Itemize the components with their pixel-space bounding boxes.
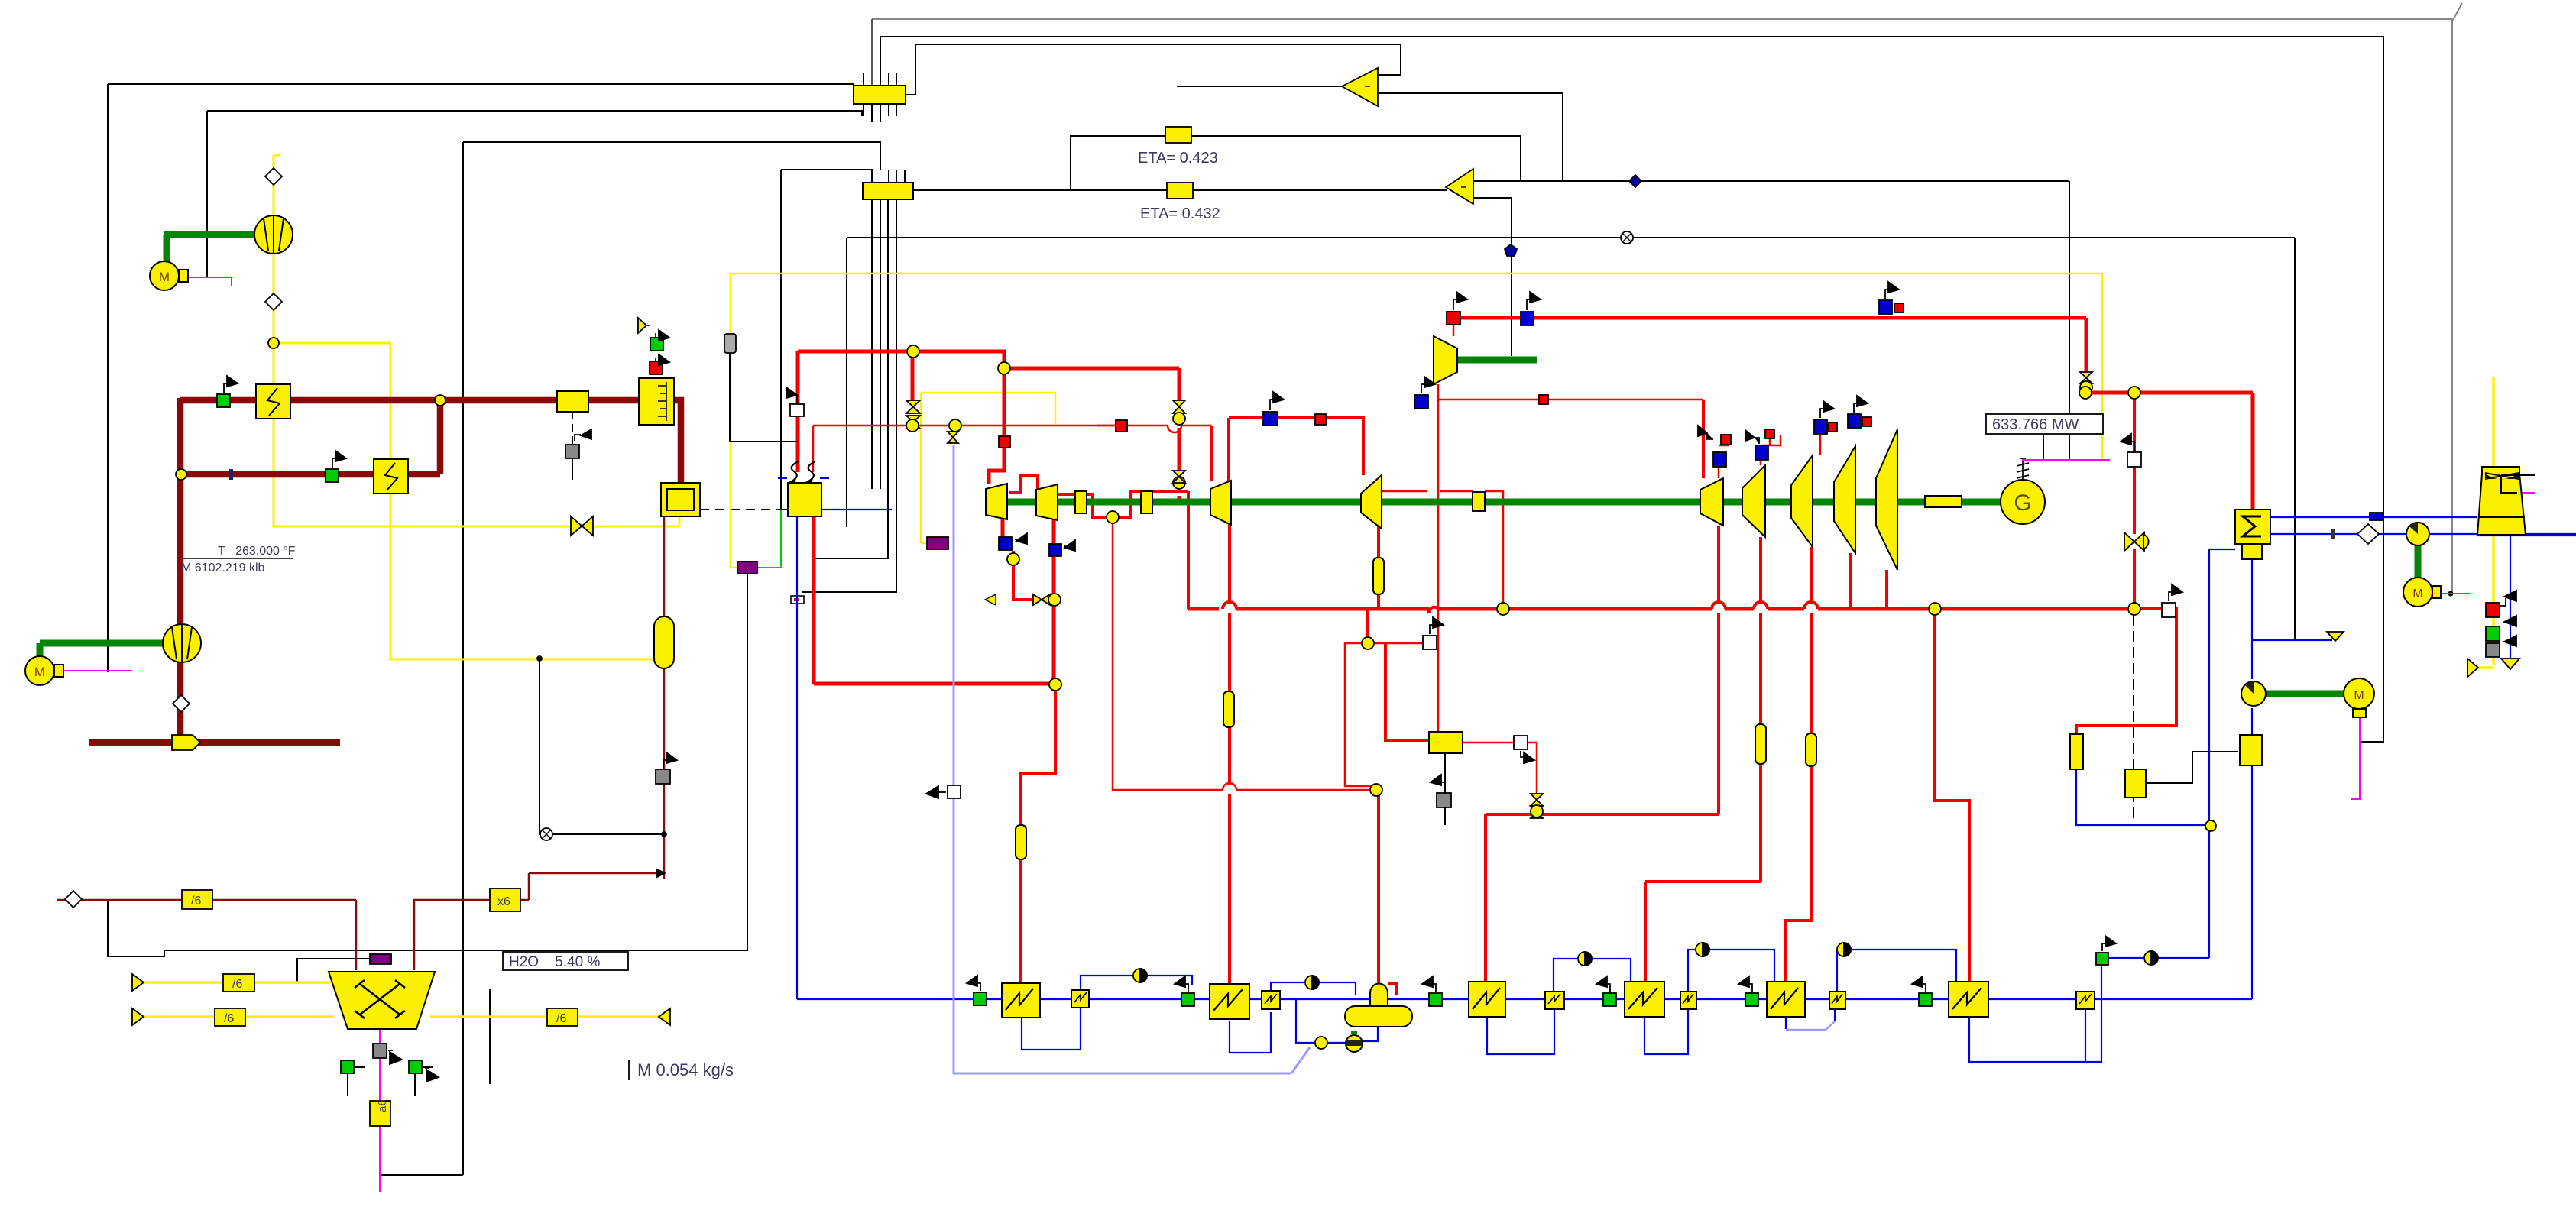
pipe T1 exhaust: [1001, 517, 1005, 545]
pipe FWH6 vent: [1837, 950, 1956, 992]
meter drum stack: [650, 338, 663, 351]
pipe makeup water: [954, 445, 1291, 1073]
valve spray hourglass: [1531, 794, 1543, 806]
node white diamond air1: [265, 168, 282, 185]
wire x1022 down to boiler: [781, 170, 788, 510]
pipe BFPT inlet y416: [1453, 324, 1455, 336]
damper small box: [557, 391, 588, 412]
node air junction dot: [537, 656, 542, 661]
BFP pump: [1346, 1035, 1363, 1052]
node white diamond fuel: [65, 891, 82, 908]
meter FWH2 green + flag: [1181, 993, 1194, 1006]
FWH2 heater: [1210, 984, 1249, 1019]
svg-text:M: M: [34, 665, 45, 679]
wire box2 small pins: [888, 170, 889, 183]
wire condenser control black: [2146, 752, 2238, 783]
pipe FWH7 drain loop: [1969, 965, 2101, 1062]
valve cold reheat bowtie: [1033, 594, 1050, 605]
wire frame2 left x606: [462, 142, 464, 1175]
pipe T5 top cluster: [1718, 451, 1720, 478]
pipe gland steam line: [2076, 609, 2176, 734]
purple actuator mill: [370, 954, 391, 964]
pipe FWH5 extraction y1154: [1645, 880, 1761, 883]
wire cooling tower yellow riser: [2492, 377, 2495, 665]
svg-text:x6: x6: [497, 895, 510, 908]
pipe drain cooler 6 bottom: [2085, 1008, 2086, 1062]
wire mill air line2 left: [142, 1015, 334, 1018]
pipe economizer condensate x1043: [796, 516, 798, 999]
svg-text:M: M: [2412, 587, 2422, 600]
condensate tank box: [2240, 735, 2262, 765]
meter red crossover: [1315, 414, 1326, 425]
meter half-moon FWH2: [1305, 976, 1319, 989]
FWH6 drain cooler: [1829, 992, 1845, 1009]
wire triangle1 output line: [1177, 86, 1343, 87]
meter cluster T5: [1713, 452, 1726, 467]
gland steam condenser tall rect: [2070, 734, 2083, 769]
pipe left downcomer x236: [177, 398, 184, 743]
pipe x6 recirc thin: [529, 872, 659, 875]
node condenser drain: [2205, 820, 2216, 831]
boiler lightning marks: [792, 461, 799, 481]
pipe drum to furnace: [674, 400, 681, 484]
FWH2 drain cooler: [1262, 991, 1280, 1009]
converter triangle U1: [1342, 68, 1378, 106]
pipe vessel down thin: [663, 668, 666, 879]
node header left: [1497, 603, 1509, 615]
pipe main steam y460: [798, 350, 1006, 354]
meter blue crossover + flag: [1263, 412, 1278, 426]
wire yellow long signal y358: [731, 273, 2102, 275]
wire vessel junction: [540, 659, 664, 834]
wire label leader T/M: [178, 558, 293, 559]
wire air HX1 to flue valve line: [274, 419, 679, 526]
node BFP suction: [1315, 1037, 1327, 1049]
meter blue BFPT line + flag: [1521, 312, 1534, 325]
meter tower left triangle: [2467, 659, 2478, 677]
meter red on T2 drop: [999, 436, 1010, 448]
attemperator box: [1429, 732, 1463, 753]
FWH6 heater: [1767, 982, 1805, 1017]
wire condenser level dashed: [2133, 551, 2134, 825]
node CW tick: [2331, 529, 2335, 539]
pipe T2 drop to node: [1052, 519, 1056, 684]
node fuel pentagon tag: [172, 735, 200, 750]
turbine T1 HP: [986, 484, 1007, 519]
wire motor M1: [186, 277, 232, 286]
pipe cold reheat return y895: [814, 682, 1055, 686]
node IP extraction: [1107, 511, 1119, 523]
pipe FWH6 drain kink lavender: [1786, 1021, 1835, 1030]
coupling C3: [1473, 492, 1485, 511]
FWH7 drain cooler: [2076, 992, 2095, 1009]
pipe FWH2 drain loop: [1230, 1012, 1271, 1053]
coupling generator shaft piece: [1925, 496, 1962, 507]
FWH4 heater: [1469, 982, 1505, 1017]
wire air branch node 449: [274, 343, 654, 659]
pipe T4 drop x1804: [1377, 526, 1380, 609]
pipe throttle valve feed x1194: [911, 351, 915, 402]
pipe deaerator steam x1804: [1376, 790, 1379, 985]
meter cluster T9: [1879, 300, 1892, 314]
heat exchanger HX2: [374, 459, 408, 494]
meter red BFPT + flag: [1447, 312, 1460, 325]
tag box /6 air1: [223, 974, 254, 992]
node bypass top: [2079, 387, 2092, 399]
node white diamond CW: [2357, 524, 2379, 544]
pipe hot gas top y524: [180, 397, 639, 404]
meter half-moon drain: [2144, 951, 2158, 965]
meter gray attemp + flag: [1437, 793, 1451, 807]
wire ETA row1 branch: [1071, 136, 1521, 190]
pipe fuel line y1178 left: [57, 899, 356, 901]
meter blue BFPT mid: [1414, 395, 1428, 409]
node bypass right: [2128, 387, 2140, 399]
turbine T8 LP: [1834, 446, 1855, 553]
pipe FWH1 vent: [1081, 976, 1192, 990]
wire CW pump motor: [2432, 593, 2470, 594]
node header end: [2128, 603, 2140, 615]
node blue pentagon BFPT: [1505, 244, 1517, 256]
pipe IP valve drop x1543: [1178, 368, 1181, 400]
node main steam B: [998, 362, 1010, 374]
node white diamond gas: [173, 695, 190, 712]
valve condenser dump: [2124, 532, 2144, 551]
wire triangle2 output y237: [1473, 180, 2069, 182]
turbine T9 LP: [1876, 429, 1897, 570]
pipe heater6 extraction x2532: [1935, 609, 1969, 985]
pipe boiler SH feed x1044: [796, 351, 800, 472]
fan FD1: [254, 215, 293, 254]
wire y145 into box1 bottom pin: [207, 111, 862, 116]
heat exchanger HX1: [256, 384, 290, 419]
meter white sq bypass + flag: [2127, 452, 2141, 467]
meter tower green: [2486, 626, 2500, 641]
efficiency box ETA2: [1167, 183, 1193, 199]
LAYER: small squares and instruments: [132, 282, 2519, 1082]
svg-text:T 263.000 °F: T 263.000 °F: [218, 545, 296, 558]
shaft CW pump motor: [2415, 544, 2422, 578]
meter blue T2: [1049, 544, 1061, 556]
LAYER: lavender makeup line: [954, 445, 1835, 1073]
node gas y621: [176, 469, 186, 480]
pipe node1790 risers: [1366, 609, 1369, 643]
element on T3 drop: [1223, 691, 1234, 727]
turbine T7 LP: [1791, 455, 1813, 547]
wire connector box1 right riser: [906, 44, 915, 95]
wire x1108 riser: [846, 238, 847, 527]
meter cluster T7: [1814, 419, 1827, 434]
wire triangle1 lower branch: [1378, 93, 1563, 181]
pipe deaerator outlet: [1363, 1026, 1378, 1041]
pipe deaerator vent hook: [1388, 983, 1397, 995]
desuper element on T4 drop: [1373, 558, 1384, 594]
pipe turbine small loop T1-T2: [1009, 475, 1038, 493]
meter deaerator green + flag: [1429, 993, 1442, 1006]
wire gray block drop overlay: [730, 353, 798, 442]
node reheat C: [949, 419, 961, 432]
meter half-moon FWH6: [1837, 943, 1851, 956]
node header right: [1929, 603, 1941, 615]
pipe T4 crossover thin y643: [1382, 490, 1427, 493]
node white diamond air2: [265, 293, 282, 310]
FWH1 drain cooler: [1071, 990, 1089, 1008]
pipe bypass valve drop x2793: [2133, 393, 2136, 534]
svg-text:/6: /6: [556, 1012, 566, 1025]
wire magenta mill bottom link: [379, 1175, 381, 1192]
vessel cyclone: [654, 616, 674, 668]
connector box U3: [863, 183, 913, 199]
wire ETA row2 line: [914, 189, 1447, 191]
wire boiler gray block drop: [730, 353, 798, 442]
wire cooling tower yellow bottom L: [2478, 666, 2493, 669]
meter white sq header1 + flag: [1423, 636, 1437, 649]
flash box small: [2125, 769, 2146, 798]
meter blue T1: [999, 537, 1012, 550]
pipe second pass y621: [181, 471, 440, 478]
pipe bottom fuel y972: [89, 739, 340, 746]
pipe FWH4 extraction y1066: [1486, 813, 1719, 816]
svg-text:G: G: [2014, 490, 2031, 516]
coupling C2: [1141, 491, 1152, 513]
svg-text:M 0.054 kg/s: M 0.054 kg/s: [637, 1060, 734, 1079]
pipe CW line 1: [2270, 516, 2477, 518]
label box 633.766 MW: [1986, 414, 2103, 434]
meter white lavender + flag: [948, 785, 961, 798]
wire gray corner glyph: [2452, 3, 2462, 21]
condenser: [2235, 510, 2270, 544]
pipe FWH6 drain loop: [1785, 1018, 1787, 1029]
LAYER: valves: [571, 353, 2149, 818]
turbine T5 LP: [1700, 478, 1723, 526]
wire generator output: [2022, 459, 2110, 461]
shaft condensate pump motor: [2264, 691, 2344, 697]
deaerator dome: [1370, 983, 1388, 1006]
LAYER: yellow air/gas lines: [142, 155, 2493, 1017]
node valve outlet ball: [906, 419, 919, 432]
node air branch: [268, 338, 279, 348]
condenser hotwell: [2242, 544, 2262, 559]
pipe condenser left drain: [2209, 549, 2235, 958]
wire signal y58 to triangle U1: [915, 44, 1401, 75]
pipe T6 drop x2304: [1759, 537, 1762, 604]
node cold reheat: [1049, 678, 1061, 691]
pipe main steam y482: [1004, 351, 1179, 368]
pipe reheater top x1064: [812, 426, 815, 472]
meter cluster T6: [1755, 445, 1768, 460]
pipe drain to FWH7: [2108, 957, 2209, 959]
node circle marker y311: [1621, 231, 1633, 244]
svg-text:M: M: [2354, 689, 2364, 702]
tag box /6 air3: [547, 1008, 578, 1026]
node vessel dot: [662, 832, 666, 837]
meter mill green R: [409, 1060, 422, 1073]
shaft fan1: [164, 231, 255, 238]
meter white sq header2 + flag: [2162, 603, 2176, 617]
element on T8 drop: [1806, 733, 1816, 766]
svg-text:M: M: [159, 270, 170, 284]
meter FWH6 green + flag: [1745, 993, 1758, 1006]
pipe T8 drop x2370: [1810, 547, 1813, 604]
LAYER: maroon pipes: [57, 398, 681, 970]
wire mill air line2 right: [430, 1015, 659, 1018]
pipe condenser hotwell down: [2251, 559, 2253, 679]
LAYER: magenta electric lines: [61, 277, 2535, 1192]
meter gray signal block: [724, 334, 736, 353]
wire yellow thin control x1205: [921, 542, 927, 545]
valve main steam stack upper: [906, 400, 920, 413]
pipe gland condenser drain: [2076, 769, 2209, 825]
valve makeup hourglass: [948, 432, 958, 443]
node gas y524: [435, 395, 446, 406]
pipe T9 drop: [1849, 553, 1852, 609]
wire mill bottom green drops: [347, 1073, 348, 1096]
node gas tick y621: [229, 469, 233, 480]
pipe T10 drop: [1885, 570, 1888, 609]
tag box a6 mill: [370, 1101, 390, 1126]
coupling C1: [1075, 491, 1087, 513]
generator G: [2001, 480, 2045, 524]
pipe economizer outlet stub: [821, 509, 892, 510]
FWH4 drain cooler: [1545, 992, 1564, 1009]
pipe T2 exhaust crossover: [1058, 494, 1108, 517]
meter green gas1 + flag: [217, 394, 230, 407]
CW pump: [2406, 523, 2429, 545]
condensate pump: [2241, 681, 2266, 706]
pipe riser x576: [437, 398, 444, 474]
valve main steam stack lower: [906, 416, 920, 429]
pipe FWH4 vent: [1554, 959, 1631, 992]
tag box x6: [490, 888, 520, 911]
pipe hotwell vent y838: [2252, 639, 2332, 641]
pipe T6 top cluster: [1760, 460, 1762, 465]
pipe FWH4 drain loop: [1487, 1008, 1554, 1054]
pipe x6 box right stub: [518, 899, 529, 901]
turbine T3 IP1: [1210, 481, 1231, 525]
node CW blue marker: [2370, 513, 2383, 520]
shaft BFPT stub: [1435, 357, 1537, 364]
meter half-moon FWH1: [1133, 969, 1147, 982]
purple actuator turbine: [927, 537, 948, 549]
wire yellow x956 to purple: [731, 273, 737, 568]
LAYER: signal converters and labels: [181, 68, 2103, 1126]
wire cooling tower tag: [2517, 492, 2535, 494]
wire mill air line1: [142, 981, 331, 984]
node main steam A: [907, 345, 919, 358]
svg-text:ETA= 0.423: ETA= 0.423: [1138, 150, 1218, 167]
pipe CW line 2: [2270, 533, 2407, 535]
wire condensate pump motor: [2351, 717, 2360, 799]
meter cluster T8: [1848, 414, 1861, 428]
cooling tower: [2477, 467, 2526, 535]
pipe T3 inlet drop: [1210, 426, 1213, 481]
svg-text:/6: /6: [191, 895, 201, 908]
pipe condenser feed y514: [2085, 391, 2253, 395]
motor M2: [25, 656, 54, 685]
node T1 exhaust: [1007, 553, 1019, 565]
tower black tag lines: [2501, 475, 2535, 493]
wire signal y311 long: [847, 237, 2295, 238]
svg-text:H2O 5.40 %: H2O 5.40 %: [509, 954, 600, 970]
boiler reheater box: [788, 483, 821, 516]
turbine BFPT: [1434, 336, 1457, 384]
wire triangle2 lower output to BFPT: [1473, 198, 1512, 356]
pipe FWH2 vent: [1271, 982, 1356, 995]
wire boiler box dashes: [700, 509, 788, 510]
efficiency box ETA1: [1165, 127, 1191, 143]
wire mill purple box link: [297, 959, 370, 982]
furnace outlet box: [661, 483, 700, 516]
label box H2O: [503, 952, 628, 970]
node deaerator branch lower: [1370, 784, 1382, 796]
meter mill green L: [341, 1060, 354, 1073]
meter half-moon FWH4: [1578, 952, 1592, 966]
converter triangle U2: [1446, 169, 1473, 204]
pipe T7 top cluster: [1819, 434, 1822, 455]
element on T6 drop: [1755, 724, 1766, 764]
pipe BFPT exhaust thin y523: [1438, 399, 1703, 401]
meter white sq attemp + flag: [1514, 736, 1528, 749]
valve yellow line bowtie: [571, 516, 593, 536]
node deaerator branch upper: [1362, 637, 1374, 649]
svg-text:a6: a6: [376, 1099, 389, 1112]
meter tower red: [2486, 603, 2500, 617]
meter mill line triangles: [132, 974, 144, 991]
wire yellow x2751 down to magenta: [2101, 273, 2104, 460]
svg-text:/6: /6: [224, 1012, 234, 1025]
wire signal y48 loop: [880, 37, 2383, 742]
wire frame left x141: [107, 84, 109, 672]
pipe BFPT drop x1882: [1437, 384, 1440, 732]
deaerator tank: [1345, 1006, 1412, 1027]
wire under x6: [489, 989, 491, 1084]
valve bypass hourglass: [2080, 372, 2092, 383]
pipe fuel x6 to mill right: [414, 900, 493, 970]
motor M1: [150, 261, 179, 290]
wire motor M2: [61, 670, 132, 671]
pipe bypass x2730: [2085, 318, 2088, 372]
wire frame2 top y186: [463, 142, 880, 170]
wire gray top loop: [872, 19, 2452, 594]
LAYER: components: [25, 86, 2535, 1052]
mill trapezoid: [329, 972, 435, 1029]
wire x3003 down to condensate line: [2294, 238, 2296, 639]
meter FWH7 green + flag: [1919, 993, 1932, 1006]
element on FWH1 extraction: [1016, 825, 1026, 859]
wire attemperator gray drop: [1444, 753, 1446, 825]
pipe FWH5 drain loop: [1644, 1008, 1688, 1054]
pipe T3 drop to FWH2: [1228, 523, 1231, 604]
wire mill bottom: [379, 1029, 381, 1192]
pipe main condensate y1308: [797, 998, 2252, 1000]
pipe IP extraction y1034: [1113, 517, 1223, 790]
turbine T2: [1036, 484, 1058, 520]
svg-text:ETA= 0.432: ETA= 0.432: [1140, 205, 1220, 222]
pipe CW tower blowdown: [2510, 536, 2511, 658]
wire box1 small pins: [863, 73, 864, 86]
LAYER: nodes: [65, 168, 2383, 1049]
motor M3 condensate: [2344, 678, 2374, 709]
valve deaerator pegging: [985, 594, 996, 605]
turbine T6 LP: [1742, 465, 1765, 537]
pipe attemperator out: [1463, 742, 1515, 744]
wire small yellow box drop: [572, 412, 573, 458]
meter blowdown triangle: [2327, 632, 2344, 641]
FWH5 heater: [1625, 982, 1664, 1017]
meter white boiler + flag: [790, 404, 804, 416]
node circle marker x6: [540, 828, 552, 840]
wire air riser x358: [274, 154, 280, 157]
